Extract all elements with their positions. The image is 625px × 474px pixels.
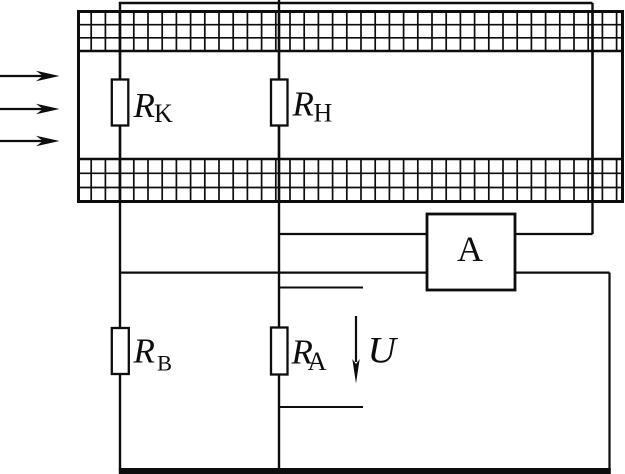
wire: RK/RH verticals re-drawn over grid	[120, 11, 593, 202]
wire: amplifier output to right vertical y=273	[515, 272, 610, 274]
resistor RA body	[271, 328, 288, 375]
node: output terminal upper stub	[280, 287, 363, 289]
wire: RH branch vertical x=279 from image top to bottom bus	[278, 0, 280, 470]
resistor RK body	[112, 80, 129, 126]
wire: amplifier right side to top drop y=234	[515, 233, 593, 235]
svg-text:K: K	[154, 99, 173, 128]
svg-text:B: B	[157, 351, 172, 376]
wire: top horizontal from RK branch to right drop	[119, 2, 593, 4]
svg-text:R: R	[133, 332, 155, 371]
output voltage arrow U	[352, 316, 359, 384]
wire: bottom bus	[119, 468, 611, 474]
svg-text:H: H	[314, 99, 333, 128]
svg-text:R: R	[292, 84, 314, 123]
wire: right vertical drop x=592.5 from top wire to amplifier input level	[591, 3, 593, 234]
svg-text:A: A	[457, 229, 483, 269]
svg-text:A: A	[308, 346, 327, 376]
duct bottom grid wall	[77, 159, 622, 202]
amplifier U1 box	[427, 214, 515, 290]
resistor RH body	[271, 80, 288, 126]
duct top grid wall	[77, 12, 622, 52]
duct outer frame	[79, 12, 623, 202]
svg-text:U: U	[368, 331, 399, 372]
flow arrow 1	[0, 71, 60, 81]
wire: RK branch vertical x=120 from top wire to bottom bus	[119, 2, 121, 470]
resistor RB body	[112, 328, 129, 374]
wire: right output vertical x=609 down to bottom bus	[608, 273, 610, 470]
svg-text:R: R	[133, 86, 155, 125]
wire: lower amplifier input from RK branch y=273	[120, 272, 427, 274]
flow arrow 3	[0, 136, 60, 146]
flow arrow 2	[0, 104, 60, 114]
wire: upper amplifier input from RH branch y=234	[279, 233, 427, 235]
node: output terminal lower stub	[280, 406, 363, 408]
